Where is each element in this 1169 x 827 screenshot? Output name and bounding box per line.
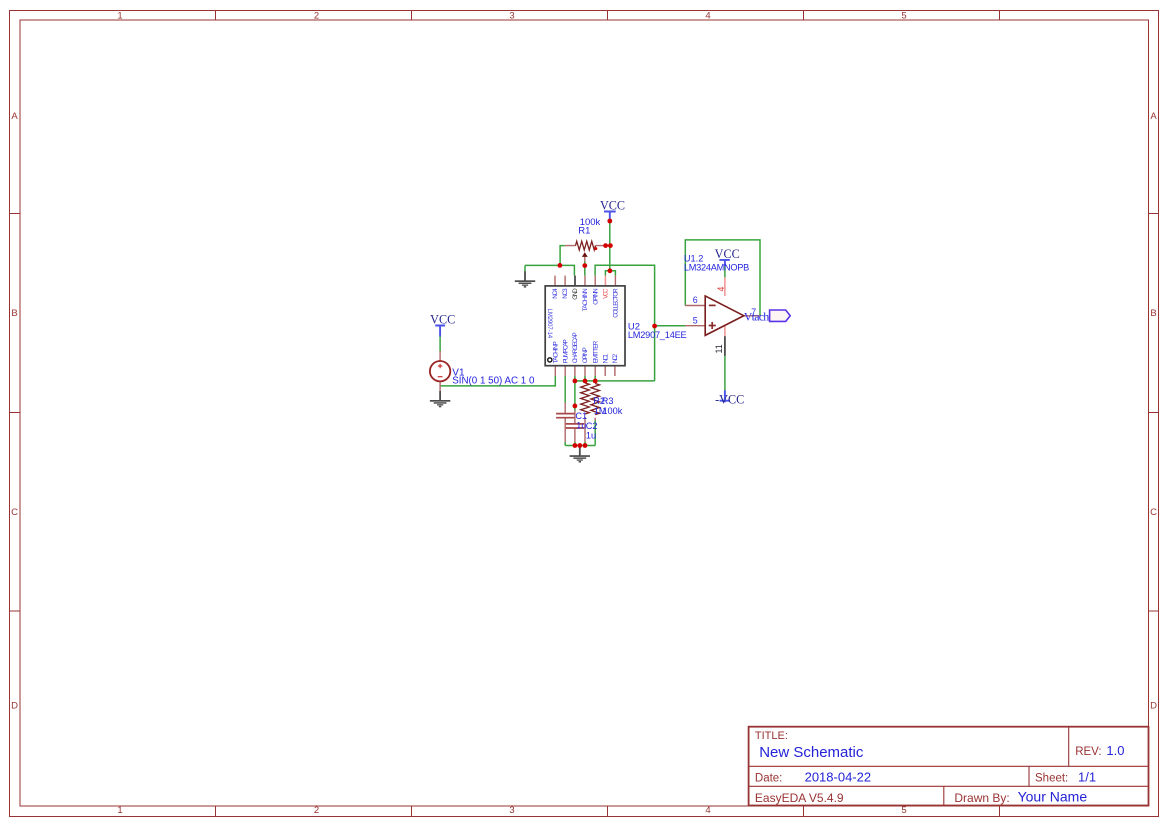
- svg-text:VCC: VCC: [600, 198, 625, 212]
- svg-text:6: 6: [693, 295, 698, 305]
- svg-text:VCC: VCC: [603, 288, 610, 299]
- svg-text:1.0: 1.0: [1106, 743, 1124, 758]
- svg-text:NC4: NC4: [552, 288, 559, 299]
- svg-text:4: 4: [705, 11, 710, 22]
- svg-text:A: A: [11, 111, 18, 122]
- svg-text:5: 5: [693, 316, 698, 326]
- svg-text:1: 1: [117, 11, 122, 22]
- svg-text:SIN(0 1 50) AC 1 0: SIN(0 1 50) AC 1 0: [452, 376, 535, 387]
- svg-text:CHARGECAP: CHARGECAP: [572, 332, 579, 363]
- svg-text:TACHINN: TACHINN: [582, 288, 589, 311]
- svg-text:EMITTER: EMITTER: [592, 340, 599, 363]
- svg-text:C2: C2: [586, 421, 598, 431]
- svg-text:TACHINP: TACHINP: [552, 341, 559, 363]
- svg-text:R3: R3: [602, 396, 614, 406]
- svg-text:D: D: [1150, 701, 1157, 712]
- svg-text:Drawn By:: Drawn By:: [954, 791, 1009, 805]
- svg-text:OPINN: OPINN: [592, 288, 599, 305]
- svg-text:PUMPCAP: PUMPCAP: [562, 339, 569, 363]
- svg-text:New Schematic: New Schematic: [759, 744, 864, 761]
- svg-text:A: A: [1150, 111, 1157, 122]
- svg-text:B: B: [11, 308, 17, 319]
- svg-text:3: 3: [509, 805, 514, 816]
- svg-text:2: 2: [314, 805, 319, 816]
- svg-text:11: 11: [714, 344, 724, 353]
- svg-text:5: 5: [901, 11, 906, 22]
- svg-text:-VCC: -VCC: [715, 392, 744, 406]
- svg-text:C1: C1: [575, 411, 587, 421]
- svg-text:VCC: VCC: [430, 312, 455, 326]
- svg-text:NC2: NC2: [612, 353, 619, 363]
- svg-text:2: 2: [314, 11, 319, 22]
- svg-text:VCC: VCC: [715, 247, 740, 261]
- svg-text:1u: 1u: [586, 431, 596, 441]
- svg-text:NC1: NC1: [602, 353, 609, 363]
- svg-text:NC3: NC3: [562, 288, 569, 299]
- svg-text:Vtach: Vtach: [744, 310, 769, 324]
- svg-text:GND: GND: [572, 288, 579, 300]
- svg-text:C: C: [11, 507, 18, 518]
- svg-text:1/1: 1/1: [1078, 769, 1096, 784]
- svg-text:LM2907-14: LM2907-14: [546, 309, 552, 339]
- svg-text:Your Name: Your Name: [1018, 789, 1088, 805]
- svg-text:7: 7: [751, 307, 756, 317]
- svg-text:C: C: [1150, 507, 1157, 518]
- svg-text:REV:: REV:: [1075, 746, 1101, 758]
- svg-text:1: 1: [117, 805, 122, 816]
- svg-text:100k: 100k: [602, 406, 622, 416]
- svg-text:B: B: [1150, 308, 1156, 319]
- svg-text:EasyEDA V5.4.9: EasyEDA V5.4.9: [755, 791, 844, 805]
- svg-text:Sheet:: Sheet:: [1035, 773, 1068, 785]
- svg-text:Date:: Date:: [755, 773, 783, 785]
- svg-text:R1: R1: [578, 225, 590, 236]
- svg-text:LM324AMNOPB: LM324AMNOPB: [684, 262, 749, 272]
- svg-text:D: D: [11, 701, 18, 712]
- svg-text:5: 5: [901, 805, 906, 816]
- svg-text:3: 3: [509, 11, 514, 22]
- svg-text:2018-04-22: 2018-04-22: [805, 769, 872, 784]
- svg-text:COLLECTOR: COLLECTOR: [613, 288, 620, 318]
- svg-text:LM2907_14EE: LM2907_14EE: [628, 330, 687, 340]
- svg-text:TITLE:: TITLE:: [755, 730, 788, 742]
- svg-text:4: 4: [705, 805, 710, 816]
- svg-text:4: 4: [716, 287, 726, 292]
- svg-text:OPINP: OPINP: [582, 347, 589, 363]
